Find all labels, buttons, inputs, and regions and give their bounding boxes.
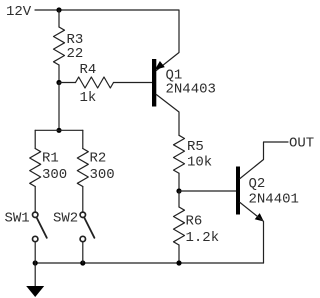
resistor R1 xyxy=(30,149,41,187)
resistor R3 xyxy=(54,27,65,65)
wire Q2 collector to OUT xyxy=(240,142,288,179)
wire R6 top lead xyxy=(178,191,180,207)
wire R5 bottom lead xyxy=(178,173,180,191)
wire R3 top lead xyxy=(58,10,60,27)
wire branch horizontal xyxy=(35,129,83,131)
ground xyxy=(34,263,36,286)
wire Q1 collector to R5 xyxy=(156,95,179,136)
node junction dot R5/R6/Q2 base xyxy=(176,188,181,193)
wire R1 bottom lead xyxy=(34,187,36,212)
wire R6 bottom lead xyxy=(178,245,180,263)
svg-text:10k: 10k xyxy=(187,154,212,170)
wire R4 right lead to Q1 base xyxy=(114,82,153,84)
resistor R2 xyxy=(77,149,88,187)
node junction dot branch xyxy=(56,128,61,133)
svg-text:R2: R2 xyxy=(90,151,107,167)
resistor R6 xyxy=(174,207,185,245)
svg-text:R6: R6 xyxy=(186,214,203,230)
svg-text:12V: 12V xyxy=(6,4,32,20)
wire Q2 emitter to bottom rail xyxy=(240,203,264,264)
wire SW1 bottom lead xyxy=(34,242,36,263)
svg-text:R4: R4 xyxy=(80,62,97,78)
wire R4 left lead xyxy=(59,82,76,84)
resistor R5 xyxy=(174,135,185,173)
transistor Q1 xyxy=(152,59,156,107)
svg-text:R1: R1 xyxy=(42,151,59,167)
svg-text:SW1: SW1 xyxy=(5,211,30,227)
svg-text:OUT: OUT xyxy=(289,136,314,152)
svg-text:300: 300 xyxy=(90,167,115,183)
node junction dot R3/R4 xyxy=(56,80,61,85)
wire top rail from 12V to Q1 emitter xyxy=(35,10,179,71)
wire branch node vertical xyxy=(58,83,60,131)
wire R1 top lead xyxy=(34,130,36,148)
transistor Q2 xyxy=(236,167,240,215)
svg-text:R5: R5 xyxy=(187,139,204,155)
svg-text:SW2: SW2 xyxy=(53,211,78,227)
wire R2 top lead xyxy=(82,130,84,148)
node junction dot top rail xyxy=(56,7,61,12)
node junction dot ground xyxy=(33,260,38,265)
svg-text:1.2k: 1.2k xyxy=(186,230,220,246)
node junction dot SW2 bottom xyxy=(80,260,85,265)
svg-text:Q2: Q2 xyxy=(249,176,266,192)
svg-text:22: 22 xyxy=(67,46,84,62)
wire R2 bottom lead xyxy=(82,187,84,212)
svg-text:300: 300 xyxy=(42,167,67,183)
wire base of Q2 xyxy=(179,190,236,192)
wire R3 bottom lead xyxy=(58,65,60,83)
svg-text:2N4401: 2N4401 xyxy=(249,191,299,207)
svg-text:1k: 1k xyxy=(80,90,97,106)
node junction dot R6 bottom xyxy=(176,260,181,265)
wire SW2 bottom lead xyxy=(82,242,84,263)
wire bottom rail xyxy=(35,262,263,264)
resistor R4 xyxy=(76,77,114,88)
svg-text:2N4403: 2N4403 xyxy=(166,82,216,98)
